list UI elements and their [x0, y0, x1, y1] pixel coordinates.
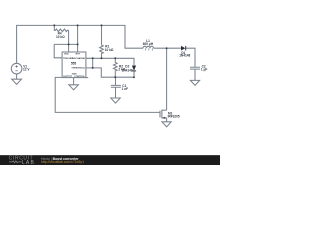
svg-text:LAB: LAB — [22, 160, 35, 165]
svg-text:1 μF: 1 μF — [201, 68, 208, 72]
svg-text:http://circuitlab.com/c71b5y1: http://circuitlab.com/c71b5y1 — [41, 160, 84, 164]
svg-text:10 kΩ: 10 kΩ — [105, 48, 114, 52]
svg-text:THRESHOLD: THRESHOLD — [71, 68, 85, 70]
svg-text:1 nF: 1 nF — [122, 87, 129, 91]
svg-text:RST: RST — [76, 53, 81, 55]
svg-text:1N4148: 1N4148 — [179, 54, 190, 58]
svg-text:12 V: 12 V — [23, 68, 30, 72]
svg-text:OUTPUT: OUTPUT — [63, 76, 73, 78]
svg-text:GND: GND — [72, 74, 77, 76]
svg-text:IRF3205: IRF3205 — [168, 114, 180, 118]
svg-text:600 μH: 600 μH — [143, 42, 154, 46]
svg-text:1N4148: 1N4148 — [122, 68, 133, 72]
svg-text:CONTROL: CONTROL — [74, 76, 85, 78]
svg-text:DISCHARGE: DISCHARGE — [72, 57, 86, 60]
svg-text:VDD: VDD — [64, 53, 69, 55]
svg-text:555: 555 — [71, 61, 77, 65]
svg-text:10 kΩ: 10 kΩ — [56, 35, 65, 39]
